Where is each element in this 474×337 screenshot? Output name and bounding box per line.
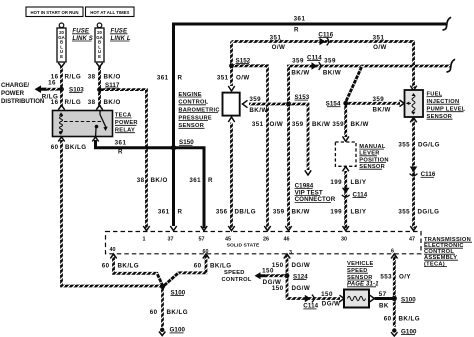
svg-text:E: E bbox=[60, 54, 63, 59]
connector C1984 VIP test bbox=[295, 170, 336, 203]
svg-text:E: E bbox=[98, 54, 101, 59]
label 199 LB/Y upper bbox=[330, 179, 367, 186]
svg-text:BK: BK bbox=[379, 302, 389, 309]
svg-text:38: 38 bbox=[88, 99, 96, 106]
connector C116 top bbox=[318, 31, 333, 45]
svg-text:DB/LG: DB/LG bbox=[235, 209, 257, 216]
pin numbers top bbox=[143, 237, 416, 243]
svg-text:HOT AT ALL TIMES: HOT AT ALL TIMES bbox=[90, 10, 129, 15]
label 351 O/W right of C116 bbox=[373, 35, 387, 51]
wire fuse link S down to relay bbox=[60, 66, 63, 106]
svg-text:37: 37 bbox=[168, 237, 174, 243]
label 57 BK bbox=[379, 291, 389, 309]
wire S152 to pin 26 bbox=[232, 66, 268, 228]
svg-text:O/W: O/W bbox=[236, 75, 250, 82]
svg-text:60: 60 bbox=[194, 262, 202, 269]
solid wires: 361 R bus bbox=[96, 24, 447, 299]
svg-text:199: 199 bbox=[330, 179, 342, 186]
wire S153 to VIP connector bbox=[289, 104, 309, 170]
connector C116 on 355 bbox=[410, 167, 436, 179]
label 351 O/W left of C116 bbox=[270, 35, 286, 51]
node S153 bbox=[286, 94, 310, 107]
label MANUAL LEVER POSITION SENSOR bbox=[359, 144, 388, 170]
label ENGINE CONTROL BAROMETRIC PRESSURE SENSOR bbox=[178, 92, 219, 129]
svg-text:O/W: O/W bbox=[272, 44, 286, 51]
svg-text:BK/W: BK/W bbox=[373, 107, 391, 114]
svg-text:355: 355 bbox=[398, 141, 410, 148]
wire pin 60 to S100 bbox=[164, 256, 206, 286]
connector C114 top bbox=[307, 54, 322, 70]
svg-text:POWER: POWER bbox=[1, 90, 25, 97]
label 38 BK/O lower bbox=[88, 99, 121, 106]
svg-text:38: 38 bbox=[88, 74, 96, 81]
label 150 DG/W pin 3 lower bbox=[272, 285, 310, 292]
svg-text:DISTRIBUTION: DISTRIBUTION bbox=[1, 98, 44, 105]
svg-text:LB/Y: LB/Y bbox=[351, 179, 367, 186]
squiggle end 361 bbox=[443, 17, 452, 30]
label CHARGE/POWER DISTRIBUTION bbox=[1, 82, 44, 105]
svg-text:O/W: O/W bbox=[373, 44, 387, 51]
svg-text:3: 3 bbox=[289, 250, 292, 256]
svg-text:40: 40 bbox=[110, 247, 116, 253]
label 351 O/W pin 26 bbox=[252, 121, 283, 128]
label 359 BK/W right of C114 bbox=[323, 58, 341, 77]
svg-text:351: 351 bbox=[270, 35, 282, 42]
svg-text:351: 351 bbox=[217, 75, 229, 82]
svg-text:45: 45 bbox=[225, 237, 231, 243]
white hatch overlay bbox=[46, 42, 450, 328]
wire S124 to speed control arrow bbox=[265, 274, 287, 277]
wire S100 to G100 right bbox=[393, 300, 396, 327]
svg-text:359: 359 bbox=[292, 58, 304, 65]
svg-text:DG/LG: DG/LG bbox=[418, 209, 440, 216]
wire 60 BK/LG relay to S100 bbox=[62, 140, 162, 286]
svg-text:BK/LG: BK/LG bbox=[399, 315, 421, 322]
svg-text:355: 355 bbox=[398, 209, 410, 216]
label 361 R pin 37 bbox=[158, 209, 183, 216]
svg-text:SOLID STATE: SOLID STATE bbox=[227, 242, 260, 248]
label 60 BK/LG S100-G100 right bbox=[384, 315, 420, 322]
label TECA POWER RELAY bbox=[115, 113, 138, 134]
svg-text:BK/W: BK/W bbox=[351, 121, 369, 128]
label 361 R top bus bbox=[294, 15, 306, 33]
svg-text:O/W: O/W bbox=[270, 121, 284, 128]
label 359 BK/W MLP wire bbox=[332, 121, 368, 128]
wire MLP to pin 30 bbox=[344, 171, 347, 228]
box HOT IN START OR RUN bbox=[26, 7, 83, 17]
arrow to charge/power distribution bbox=[35, 85, 47, 93]
svg-text:CHARGE/: CHARGE/ bbox=[1, 82, 29, 89]
label 16 R/LG lower bbox=[51, 99, 81, 106]
node S100 right bbox=[392, 296, 417, 304]
node S117 bbox=[97, 82, 120, 92]
svg-text:O/Y: O/Y bbox=[399, 273, 411, 280]
svg-text:361: 361 bbox=[189, 177, 201, 184]
arrow to speed control bbox=[255, 272, 266, 279]
svg-text:BK/LG: BK/LG bbox=[167, 309, 189, 316]
svg-text:BK/W: BK/W bbox=[323, 70, 341, 77]
svg-text:BK/W: BK/W bbox=[249, 107, 267, 114]
svg-text:47: 47 bbox=[409, 237, 415, 243]
relay TECA power relay bbox=[53, 105, 113, 141]
label 359 BK/W fuel left bbox=[373, 96, 391, 114]
svg-text:351: 351 bbox=[252, 121, 264, 128]
label FUSE LINK S bbox=[72, 29, 93, 42]
wire fuse link L down to relay bbox=[98, 66, 101, 106]
svg-text:46: 46 bbox=[284, 237, 290, 243]
wire pin 40 to S100 bbox=[114, 256, 163, 286]
label 60 BK/LG relay out bbox=[51, 144, 87, 151]
svg-text:359: 359 bbox=[332, 121, 344, 128]
label 355 DG/LG upper bbox=[398, 141, 440, 148]
svg-text:BK/LG: BK/LG bbox=[210, 262, 232, 269]
fuse link L bbox=[95, 23, 104, 67]
wire pin 6 553 O/Y to S100 right bbox=[393, 256, 396, 296]
wire 361 R bus top and pin 37 bbox=[174, 24, 447, 226]
svg-text:BK/LG: BK/LG bbox=[65, 144, 87, 151]
squiggle end 359 bbox=[447, 59, 456, 72]
wire 359 diagonal to S154 bbox=[346, 66, 362, 102]
svg-text:38: 38 bbox=[137, 177, 145, 184]
pin arrows bottom edge bbox=[110, 254, 397, 259]
wire S152 vertical to baro sensor bbox=[230, 42, 233, 87]
svg-text:CONTROL: CONTROL bbox=[222, 277, 252, 283]
sensor manual lever position (dashed) bbox=[335, 136, 356, 171]
svg-text:BK/O: BK/O bbox=[104, 74, 121, 81]
svg-text:DG/W: DG/W bbox=[292, 262, 311, 269]
svg-text:351: 351 bbox=[373, 35, 385, 42]
svg-text:60: 60 bbox=[150, 309, 158, 316]
label 553 O/Y pin 6 bbox=[380, 273, 411, 280]
node S154 bbox=[326, 101, 348, 108]
label 16 R/LG upper bbox=[51, 74, 81, 81]
node S124 bbox=[285, 273, 309, 280]
sensor fuel injection pump level bbox=[400, 86, 424, 123]
wire 351 O/W main bbox=[232, 42, 414, 89]
svg-text:6: 6 bbox=[391, 248, 394, 254]
label 361 R pin 57 bbox=[189, 177, 213, 184]
wire S153 to baro sensor bbox=[249, 103, 289, 106]
wire S103 to charge arrow bbox=[46, 88, 62, 91]
svg-text:57: 57 bbox=[379, 291, 387, 298]
wire S154 to MLP sensor bbox=[344, 103, 347, 137]
svg-text:R: R bbox=[294, 27, 299, 34]
svg-text:553: 553 bbox=[380, 273, 392, 280]
label 38 BK/O pin 1 bbox=[137, 177, 168, 184]
svg-text:26: 26 bbox=[263, 237, 269, 243]
label VEHICLE SPEED SENSOR PAGE 31-1 bbox=[347, 261, 379, 287]
label 356 DB/LG pin 45 bbox=[216, 209, 256, 216]
label 361 R bus vertical bbox=[157, 75, 183, 82]
svg-text:R: R bbox=[208, 177, 213, 184]
svg-text:361: 361 bbox=[115, 139, 127, 146]
wire 355 DG/LG fuel sensor to pin 47 bbox=[412, 119, 415, 228]
box HOT AT ALL TIMES bbox=[86, 7, 135, 17]
wire S117 right, down to pin 1 bbox=[100, 90, 147, 229]
label 359 BK/W baro right bbox=[249, 96, 267, 114]
svg-text:60: 60 bbox=[102, 262, 110, 269]
node S103 bbox=[59, 86, 84, 93]
svg-text:359: 359 bbox=[273, 209, 285, 216]
svg-text:57: 57 bbox=[199, 237, 205, 243]
wire pin 3 150 DG/W to VSS bbox=[287, 256, 340, 299]
svg-text:359: 359 bbox=[292, 121, 304, 128]
label SPEED CONTROL bbox=[222, 270, 252, 283]
label 361 R relay out bbox=[115, 139, 127, 155]
svg-text:356: 356 bbox=[216, 209, 228, 216]
sensor engine control barometric pressure bbox=[223, 86, 248, 122]
svg-text:30: 30 bbox=[341, 237, 347, 243]
label 359 BK/W left of C114 bbox=[291, 58, 309, 77]
svg-text:361: 361 bbox=[158, 209, 170, 216]
label TRANSMISSION ELECTRONIC CONTROL ASSEMBLY (TECA) bbox=[424, 237, 472, 267]
label 60 BK/LG pin 40 bbox=[102, 262, 139, 269]
connector C114 bottom bbox=[303, 295, 318, 310]
label 150 DG/W pin 3 upper bbox=[272, 262, 310, 269]
svg-text:199: 199 bbox=[330, 209, 342, 216]
svg-text:359: 359 bbox=[373, 96, 385, 103]
wire 359 BK/W horizontal and pin 46 bbox=[289, 66, 451, 228]
label 199 LB/Y lower bbox=[330, 209, 367, 216]
label 60 BK/LG S100-G100 left bbox=[150, 309, 188, 316]
node S152 bbox=[229, 57, 251, 68]
svg-text:1: 1 bbox=[143, 237, 146, 243]
hatched wires (black base) bbox=[46, 42, 450, 328]
svg-text:LB/Y: LB/Y bbox=[351, 209, 367, 216]
svg-text:BK/W: BK/W bbox=[291, 70, 309, 77]
wire baro sensor to pin 45 bbox=[230, 123, 233, 229]
wire S100 to G100 left bbox=[161, 288, 164, 327]
svg-text:16: 16 bbox=[48, 79, 56, 86]
svg-text:60: 60 bbox=[51, 144, 59, 151]
svg-text:R/LG: R/LG bbox=[65, 99, 82, 106]
label 355 DG/LG pin 47 bbox=[398, 209, 439, 216]
ground G100 left bbox=[159, 327, 185, 336]
solid state TECA box (dashed) bbox=[106, 232, 422, 254]
svg-text:150: 150 bbox=[262, 268, 274, 275]
pin arrows top edge bbox=[143, 226, 416, 231]
svg-text:DG/LG: DG/LG bbox=[418, 141, 440, 148]
label 60 BK/LG pin 60 bbox=[194, 262, 232, 269]
svg-text:60: 60 bbox=[203, 249, 209, 255]
label FUSE LINK L bbox=[110, 29, 131, 42]
svg-text:SPEED: SPEED bbox=[224, 270, 245, 276]
label 351 O/W above baro bbox=[217, 75, 250, 82]
svg-text:BK/O: BK/O bbox=[104, 99, 121, 106]
svg-text:150: 150 bbox=[321, 291, 333, 298]
svg-text:BK/LG: BK/LG bbox=[118, 262, 140, 269]
wire S154 to fuel sensor bbox=[346, 102, 400, 105]
svg-text:60: 60 bbox=[384, 315, 392, 322]
wire 57 BK VSS to S100 bbox=[375, 297, 395, 300]
label 359 BK/W VIP wire bbox=[292, 121, 330, 128]
svg-text:150: 150 bbox=[272, 285, 284, 292]
fuse link S bbox=[57, 23, 66, 67]
svg-text:359: 359 bbox=[324, 58, 336, 65]
svg-text:R: R bbox=[178, 209, 183, 216]
label FUEL INJECTION PUMP LEVEL SENSOR bbox=[427, 92, 466, 121]
svg-text:R/LG: R/LG bbox=[65, 74, 82, 81]
svg-text:BK/W: BK/W bbox=[292, 209, 310, 216]
label 359 BK/W pin 46 bbox=[273, 209, 310, 216]
svg-text:361: 361 bbox=[294, 15, 306, 22]
svg-text:BK/W: BK/W bbox=[312, 121, 330, 128]
node S150 bbox=[171, 139, 195, 150]
svg-text:DG/W: DG/W bbox=[292, 285, 311, 292]
svg-text:16: 16 bbox=[51, 99, 59, 106]
sensor vehicle speed bbox=[340, 290, 375, 308]
svg-text:DG/W: DG/W bbox=[322, 301, 341, 308]
svg-text:R: R bbox=[118, 149, 123, 156]
svg-text:BK/O: BK/O bbox=[151, 177, 168, 184]
connector C114 MLP bbox=[342, 188, 368, 199]
wire 361 R relay out to pin 57 bbox=[96, 140, 205, 228]
pin numbers bottom bbox=[110, 247, 395, 256]
svg-text:R: R bbox=[178, 75, 183, 82]
ground G100 right bbox=[391, 328, 417, 336]
svg-text:361: 361 bbox=[157, 75, 169, 82]
svg-text:359: 359 bbox=[249, 96, 261, 103]
svg-text:HOT IN START OR RUN: HOT IN START OR RUN bbox=[31, 10, 79, 15]
label 38 BK/O upper bbox=[88, 74, 121, 81]
node S100 left bbox=[160, 284, 186, 297]
